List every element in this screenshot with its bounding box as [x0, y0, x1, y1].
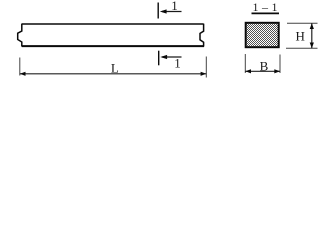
B dim right arrowhead: [274, 69, 280, 73]
L dimension line: [20, 73, 207, 75]
B dimension right extension line: [279, 55, 281, 74]
beam right break line: [200, 24, 204, 47]
svg-text:1: 1: [253, 0, 259, 14]
section cut arrow top: [162, 11, 182, 13]
section rectangle (hatched): [246, 23, 279, 47]
H dim bottom arrowhead: [310, 43, 314, 49]
L dimension left extension line: [19, 58, 21, 76]
section cut arrow bottom: [162, 56, 182, 58]
H dimension bottom extension line: [286, 47, 318, 49]
beam top edge: [22, 23, 204, 25]
beam bottom edge: [22, 45, 204, 47]
svg-text:1: 1: [272, 0, 278, 14]
H dim top arrowhead: [310, 23, 314, 29]
B dimension line: [245, 70, 280, 72]
B dim left arrowhead: [245, 69, 251, 73]
L dim right arrowhead: [201, 72, 207, 76]
L dim left arrowhead: [20, 72, 26, 76]
B dimension left extension line: [244, 54, 246, 73]
svg-text:B: B: [260, 59, 269, 74]
section cut tick 1 top: [157, 3, 159, 19]
svg-text:L: L: [111, 61, 119, 76]
L dimension right extension line: [205, 57, 207, 78]
svg-text:1: 1: [171, 0, 178, 13]
svg-text:H: H: [296, 29, 305, 44]
section cut tick 1 bottom: [158, 51, 160, 66]
H dimension line: [311, 23, 313, 48]
svg-text:–: –: [261, 0, 269, 14]
H dimension top extension line: [287, 22, 318, 24]
section title underline: [252, 12, 280, 14]
svg-text:1: 1: [174, 56, 181, 71]
beam left break line: [18, 24, 22, 47]
